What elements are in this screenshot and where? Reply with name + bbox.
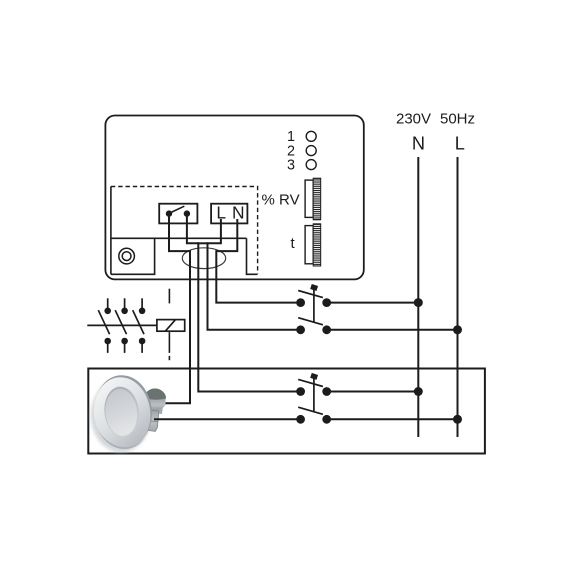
wire jog joint [197, 242, 209, 244]
relay coil K1 [157, 320, 185, 332]
terminal cover dashed outline [111, 187, 258, 274]
junction L-S2 [453, 415, 462, 424]
fan motor light band [145, 401, 166, 406]
L N terminal box [211, 204, 247, 224]
L bus line [457, 157, 459, 437]
cover screw [119, 248, 135, 264]
wire L terminal to switch S1 bottom pole [208, 219, 301, 330]
wire S2 top pole to N bus [327, 391, 419, 393]
switch S2 double-pole [296, 373, 331, 424]
controller U1 enclosure [105, 116, 363, 280]
potentiometer t body [305, 226, 313, 264]
relay contact right dot [184, 210, 190, 216]
wire S1 bottom pole to L bus [327, 329, 458, 331]
wire B relay-right to switch S2 top pole [187, 216, 301, 392]
wire S2 bottom pole to L bus [327, 418, 458, 420]
relay linkage dash below [168, 332, 170, 353]
fan mounting tab [148, 410, 159, 432]
wire S1 top pole to N bus [327, 302, 419, 304]
fan motor cone dark cap [144, 388, 166, 399]
fan photo shadow [91, 379, 151, 453]
svg-text:% RV: % RV [262, 192, 300, 209]
potentiometer RV body [305, 180, 313, 217]
inner shelf [111, 237, 247, 239]
junction L-S1 [453, 325, 462, 334]
relay contact left dot [166, 210, 172, 216]
relay coil diagonal [165, 320, 175, 331]
3-pole switch Q1 pole 2 [115, 298, 128, 353]
cable gland ellipse [182, 248, 225, 269]
fan unit box [88, 369, 485, 454]
wire A relay-left to fan [164, 216, 190, 403]
fan inner ring [102, 385, 141, 439]
3-pole switch Q1 pole 3 [133, 298, 146, 353]
wire N terminal to switch S1 top pole [216, 219, 300, 303]
fan bezel [90, 374, 155, 453]
relay linkage dash above [168, 289, 170, 304]
junction N-S2 [414, 387, 423, 396]
wire fan to S2 bottom pole [154, 418, 301, 420]
switch S1 double-pole [296, 284, 331, 334]
junction N-S1 [414, 298, 423, 307]
fan mounting tab notch [148, 421, 157, 422]
N bus line [417, 157, 419, 437]
relay output terminal box [159, 204, 197, 224]
svg-text:L: L [455, 134, 465, 154]
fan motor cone [144, 388, 166, 411]
fan motor mid block [148, 402, 164, 414]
relay contact blade [169, 206, 184, 213]
screw recess box [111, 238, 155, 274]
potentiometer t ribbed shaft [313, 224, 321, 266]
svg-text:230V: 230V [396, 111, 431, 128]
inner wall right [247, 238, 258, 274]
Q1 actuator bar [87, 324, 157, 326]
fan housing rim dark [91, 372, 156, 451]
svg-text:50Hz: 50Hz [440, 111, 475, 128]
svg-text:3: 3 [287, 158, 295, 174]
svg-text:N: N [412, 134, 425, 154]
fan bezel bottom shade [97, 425, 146, 449]
relay linkage dash tail [168, 356, 170, 360]
potentiometer RV ribbed shaft [313, 178, 321, 220]
3-pole switch Q1 pole 1 [98, 298, 111, 353]
fan inner face [103, 387, 139, 437]
inner wall left [110, 187, 112, 275]
